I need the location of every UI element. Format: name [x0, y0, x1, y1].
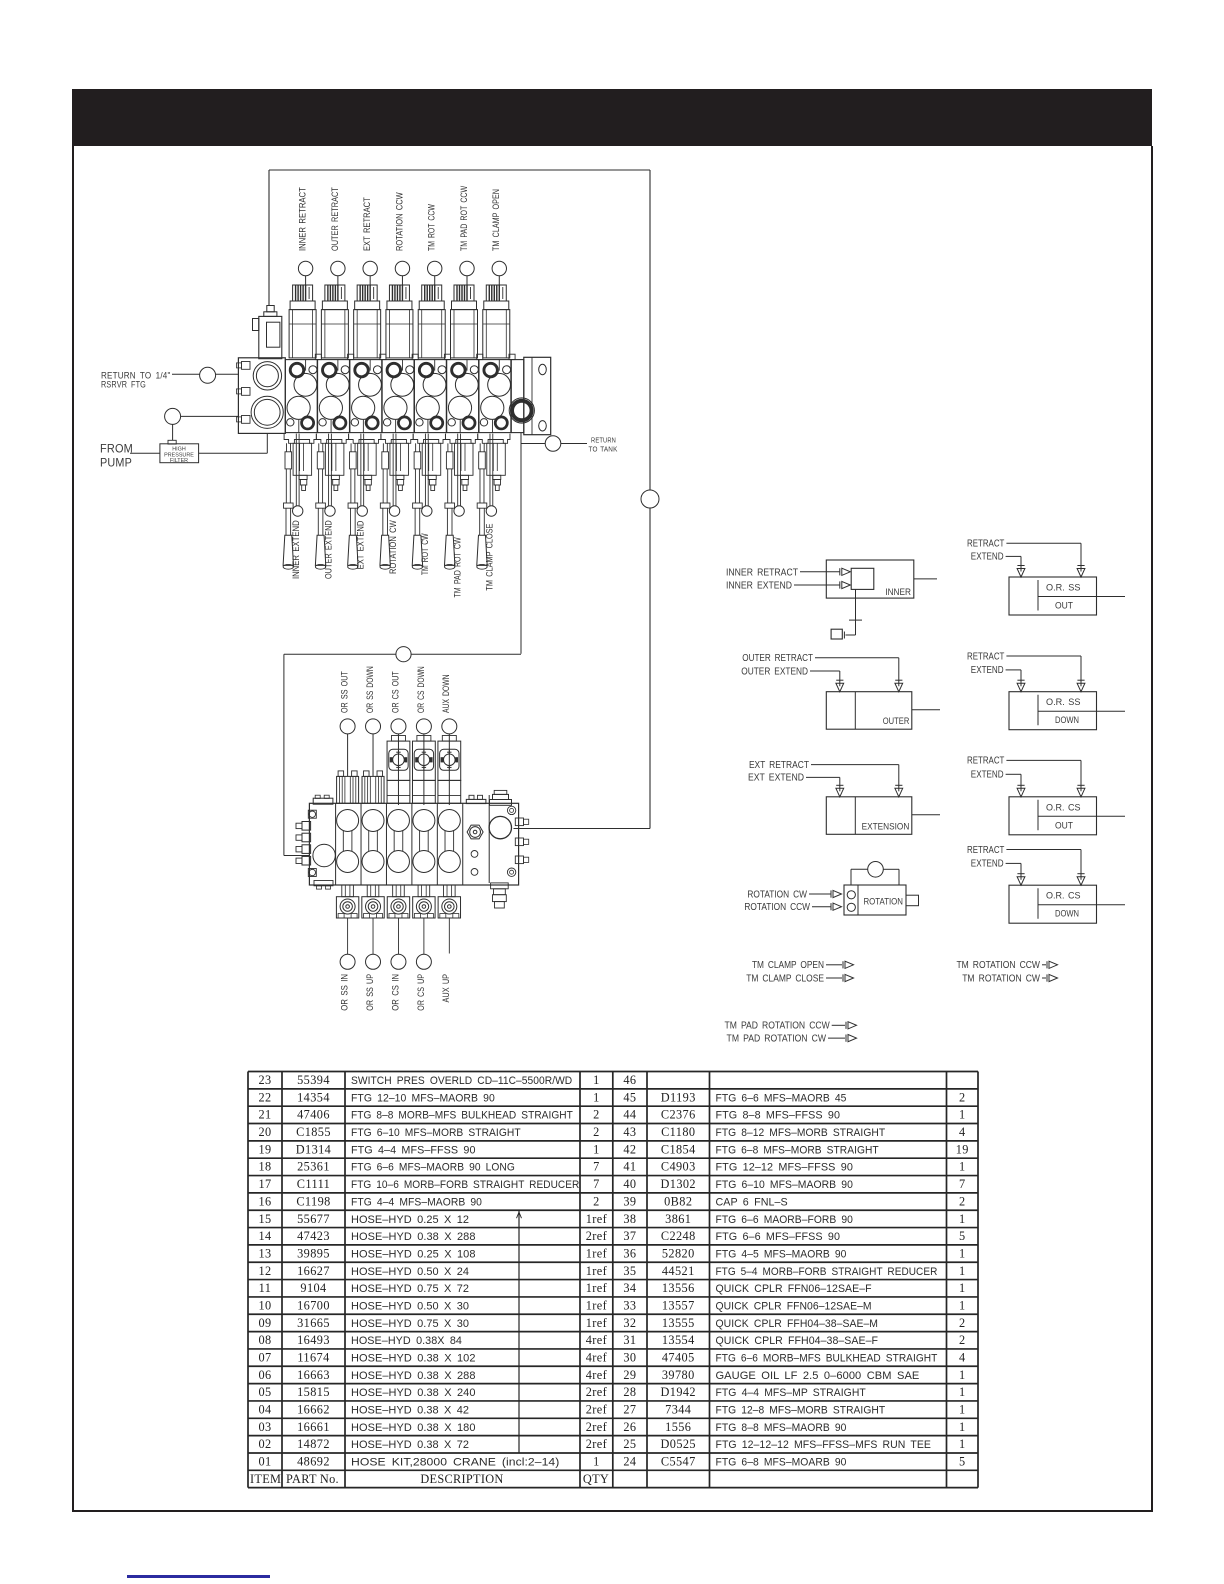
motor block ROTATION: [831, 862, 919, 916]
rod to port circle section 7: [486, 434, 496, 517]
svg-text:TM ROT CCW: TM ROT CCW: [427, 204, 437, 251]
svg-text:11: 11: [259, 1281, 272, 1295]
svg-text:47405: 47405: [662, 1350, 695, 1364]
spool & spring cap section 5: [413, 434, 445, 491]
rod to port circle section 6: [454, 434, 464, 517]
wire: [1006, 773, 1021, 775]
svg-text:OUTER RETRACT: OUTER RETRACT: [330, 187, 340, 251]
svg-text:16627: 16627: [297, 1264, 330, 1278]
svg-text:PUMP: PUMP: [100, 458, 132, 470]
svg-text:2: 2: [959, 1316, 966, 1330]
svg-text:26: 26: [623, 1420, 636, 1434]
valve section 7 ports: [480, 360, 510, 433]
svg-text:HOSE–HYD 0.38 X 240: HOSE–HYD 0.38 X 240: [351, 1387, 476, 1399]
outlet port ring: [509, 398, 534, 423]
svg-text:31: 31: [623, 1333, 636, 1347]
svg-text:36: 36: [623, 1246, 636, 1260]
svg-text:7344: 7344: [665, 1403, 691, 1417]
svg-text:1: 1: [959, 1368, 966, 1382]
svg-text:30: 30: [623, 1350, 636, 1364]
svg-text:4ref: 4ref: [586, 1333, 608, 1347]
svg-text:O.R. SS: O.R. SS: [1046, 697, 1081, 707]
node: [396, 647, 411, 662]
node: port circle OR CS OUT: [391, 719, 406, 734]
svg-text:ROTATION CW: ROTATION CW: [388, 520, 398, 574]
svg-text:FTG 12–12–12 MFS–FFSS–MFS RUN: FTG 12–12–12 MFS–FFSS–MFS RUN TEE: [716, 1439, 931, 1451]
wire: [1042, 964, 1046, 966]
svg-text:16: 16: [258, 1194, 271, 1208]
node: port circle EXT RETRACT: [363, 261, 377, 275]
wire: [199, 452, 268, 454]
svg-text:D1302: D1302: [661, 1177, 696, 1191]
svg-text:2ref: 2ref: [586, 1437, 608, 1451]
lower bank outlet cap: [489, 806, 529, 908]
wire: [498, 276, 500, 286]
svg-text:1: 1: [959, 1420, 966, 1434]
svg-text:18: 18: [258, 1160, 271, 1174]
work section AUX DOWN: [438, 810, 460, 873]
node: port circle OUTER RETRACT: [331, 261, 345, 275]
svg-text:1: 1: [959, 1298, 966, 1312]
O.R. block O.R. SS DOWN: [1009, 680, 1125, 730]
wire: [347, 734, 349, 777]
svg-text:TM PAD ROT CCW: TM PAD ROT CCW: [459, 185, 469, 251]
svg-text:44: 44: [623, 1108, 636, 1122]
node: port circle TM PAD ROT CCW: [460, 261, 474, 275]
svg-text:OR SS IN: OR SS IN: [340, 974, 350, 1011]
svg-text:INNER EXTEND: INNER EXTEND: [726, 581, 792, 592]
svg-text:4ref: 4ref: [586, 1350, 608, 1364]
svg-text:1: 1: [593, 1142, 600, 1156]
svg-text:INNER: INNER: [885, 587, 911, 597]
svg-text:4: 4: [959, 1350, 966, 1364]
spool & spring cap section 7: [478, 434, 510, 491]
svg-text:FTG 12–8 MFS–MORB STRAIGHT: FTG 12–8 MFS–MORB STRAIGHT: [716, 1405, 886, 1417]
svg-text:17: 17: [258, 1177, 271, 1191]
svg-text:13555: 13555: [662, 1316, 695, 1330]
svg-text:08: 08: [258, 1333, 271, 1347]
node: port circle OR CS DOWN: [416, 719, 431, 734]
svg-text:INNER EXTEND: INNER EXTEND: [291, 520, 301, 579]
lever handle section 4: [380, 443, 390, 569]
svg-text:FTG 6–6 MFS–MAORB 90 LONG: FTG 6–6 MFS–MAORB 90 LONG: [351, 1162, 515, 1174]
svg-text:FTG 4–4 MFS–MP STRAIGHT: FTG 4–4 MFS–MP STRAIGHT: [716, 1387, 867, 1399]
svg-text:EXT EXTEND: EXT EXTEND: [356, 521, 366, 570]
solenoid operator section 5: [418, 285, 445, 358]
svg-text:16493: 16493: [297, 1333, 330, 1347]
svg-text:HOSE–HYD 0.38 X 180: HOSE–HYD 0.38 X 180: [351, 1422, 476, 1434]
svg-text:1: 1: [959, 1385, 966, 1399]
svg-text:09: 09: [258, 1316, 271, 1330]
svg-text:16663: 16663: [297, 1368, 330, 1382]
work section OR SS DOWN: [362, 810, 384, 873]
svg-text:EXTEND: EXTEND: [971, 859, 1004, 870]
svg-text:1ref: 1ref: [586, 1281, 608, 1295]
tie rod top OR SS OUT: [337, 771, 359, 803]
svg-text:2: 2: [959, 1090, 966, 1104]
svg-text:FILTER: FILTER: [170, 458, 188, 464]
rod to port circle section 2: [325, 434, 335, 517]
svg-text:0B82: 0B82: [664, 1194, 692, 1208]
svg-text:OUT: OUT: [1055, 601, 1073, 611]
svg-text:2: 2: [959, 1194, 966, 1208]
lever handle section 1: [283, 443, 293, 569]
svg-text:47406: 47406: [297, 1108, 330, 1122]
svg-text:DOWN: DOWN: [1055, 909, 1079, 919]
svg-text:FTG 4–5 MFS–MAORB 90: FTG 4–5 MFS–MAORB 90: [716, 1248, 847, 1260]
wire: [1042, 977, 1046, 979]
svg-text:FTG 6–8 MFS–MORB STRAIGHT: FTG 6–8 MFS–MORB STRAIGHT: [716, 1144, 879, 1156]
svg-text:HOSE–HYD 0.50 X 24: HOSE–HYD 0.50 X 24: [351, 1266, 469, 1278]
svg-text:34: 34: [623, 1281, 636, 1295]
svg-text:1ref: 1ref: [586, 1316, 608, 1330]
svg-text:1: 1: [959, 1212, 966, 1226]
svg-text:EXTEND: EXTEND: [971, 770, 1004, 781]
svg-text:QUICK CPLR FFN06–12SAE–F: QUICK CPLR FFN06–12SAE–F: [716, 1283, 872, 1295]
wire: [423, 734, 425, 805]
svg-text:OR CS DOWN: OR CS DOWN: [416, 666, 426, 713]
work section OR SS OUT: [337, 810, 359, 873]
node: hose junction on right drop: [641, 490, 659, 508]
svg-text:RETURN: RETURN: [591, 436, 616, 445]
svg-text:1: 1: [593, 1455, 600, 1469]
svg-text:FTG 6–10 MFS–MAORB 90: FTG 6–10 MFS–MAORB 90: [716, 1179, 853, 1191]
svg-text:25: 25: [623, 1437, 636, 1451]
wire: [1006, 542, 1081, 544]
svg-text:25361: 25361: [297, 1160, 330, 1174]
svg-text:2ref: 2ref: [586, 1420, 608, 1434]
wire: [347, 918, 349, 954]
svg-text:O.R. CS: O.R. CS: [1046, 802, 1081, 812]
svg-text:CAP 6 FNL–S: CAP 6 FNL–S: [716, 1196, 788, 1208]
svg-text:16661: 16661: [297, 1420, 330, 1434]
svg-text:02: 02: [258, 1437, 271, 1451]
wire: pump supply loop top: [269, 169, 650, 171]
wire: [809, 893, 831, 895]
svg-text:37: 37: [623, 1229, 636, 1243]
svg-text:2ref: 2ref: [586, 1403, 608, 1417]
svg-text:HOSE–HYD 0.38 X 288: HOSE–HYD 0.38 X 288: [351, 1370, 476, 1382]
spool bottom OR CS IN: [387, 885, 409, 918]
valve section 2 ports: [319, 360, 349, 433]
relief valve on inlet: [253, 306, 282, 359]
O.R. block O.R. CS DOWN: [1009, 874, 1125, 924]
wire: [1006, 669, 1021, 671]
svg-text:5: 5: [959, 1455, 966, 1469]
svg-text:QTY: QTY: [583, 1472, 609, 1486]
svg-text:13556: 13556: [662, 1281, 695, 1295]
svg-text:39: 39: [623, 1194, 636, 1208]
svg-text:OR SS OUT: OR SS OUT: [340, 671, 350, 713]
svg-text:1: 1: [959, 1403, 966, 1417]
wire: [434, 276, 436, 286]
svg-text:27: 27: [623, 1403, 636, 1417]
svg-text:O.R. CS: O.R. CS: [1046, 891, 1081, 901]
svg-text:HOSE–HYD 0.25 X 12: HOSE–HYD 0.25 X 12: [351, 1214, 469, 1226]
wire: [806, 776, 840, 778]
svg-text:15: 15: [258, 1212, 271, 1226]
spool & spring cap section 1: [284, 434, 316, 491]
svg-text:HOSE–HYD 0.25 X 108: HOSE–HYD 0.25 X 108: [351, 1248, 476, 1260]
svg-text:44521: 44521: [662, 1264, 695, 1278]
svg-text:2ref: 2ref: [586, 1229, 608, 1243]
node: rsrvr circle: [200, 367, 216, 383]
svg-text:14: 14: [258, 1229, 271, 1243]
valve section 4 ports: [383, 360, 413, 433]
svg-text:EXTENSION: EXTENSION: [862, 821, 910, 831]
wire: [130, 452, 160, 454]
svg-text:35: 35: [623, 1264, 636, 1278]
svg-text:TO TANK: TO TANK: [589, 445, 618, 454]
O.R. block O.R. SS OUT: [1009, 566, 1125, 616]
svg-text:38: 38: [623, 1212, 636, 1226]
lever handle section 5: [412, 443, 422, 569]
svg-text:QUICK CPLR FFH04–38–SAE–F: QUICK CPLR FFH04–38–SAE–F: [716, 1335, 879, 1347]
rod to port circle section 3: [357, 434, 367, 517]
svg-text:41: 41: [623, 1160, 636, 1174]
wire: [826, 964, 842, 966]
svg-text:FROM: FROM: [100, 444, 133, 456]
svg-text:GAUGE OIL LF 2.5 0–6000 CBM SA: GAUGE OIL LF 2.5 0–6000 CBM SAE: [716, 1370, 920, 1382]
svg-text:5: 5: [959, 1229, 966, 1243]
svg-text:HOSE–HYD 0.75 X 72: HOSE–HYD 0.75 X 72: [351, 1283, 469, 1295]
svg-text:15815: 15815: [297, 1385, 330, 1399]
work section OR CS DOWN: [413, 810, 435, 873]
wire: [337, 276, 339, 286]
svg-text:20: 20: [258, 1125, 271, 1139]
svg-text:43: 43: [623, 1125, 636, 1139]
wire: [423, 918, 425, 954]
wire: [912, 709, 940, 711]
svg-text:D0525: D0525: [661, 1437, 696, 1451]
svg-text:07: 07: [258, 1350, 271, 1364]
svg-text:TM ROT CW: TM ROT CW: [420, 533, 430, 575]
svg-text:29: 29: [623, 1368, 636, 1382]
node: port circle ROTATION CCW: [395, 261, 409, 275]
svg-text:52820: 52820: [662, 1246, 695, 1260]
svg-text:TM PAD ROTATION CW: TM PAD ROTATION CW: [727, 1033, 827, 1044]
svg-text:OUTER: OUTER: [883, 716, 910, 726]
wire: lower bank output: [514, 828, 651, 830]
svg-text:05: 05: [258, 1385, 271, 1399]
lower bank inlet cap: [296, 810, 335, 889]
svg-text:C2376: C2376: [661, 1108, 696, 1122]
svg-text:OR SS UP: OR SS UP: [365, 974, 375, 1011]
svg-text:1: 1: [959, 1246, 966, 1260]
svg-text:22: 22: [258, 1090, 271, 1104]
svg-text:C1111: C1111: [297, 1177, 330, 1191]
svg-text:2: 2: [593, 1125, 600, 1139]
svg-text:48692: 48692: [297, 1455, 330, 1469]
svg-text:D1314: D1314: [296, 1142, 331, 1156]
rod to port circle section 4: [389, 434, 399, 517]
solenoid operator section 2: [321, 285, 348, 358]
wire: [828, 1037, 845, 1039]
wire: INNER drain w/ plug: [831, 589, 862, 639]
work section OR CS OUT: [387, 810, 409, 873]
svg-text:4: 4: [959, 1125, 966, 1139]
svg-text:ROTATION CCW: ROTATION CCW: [744, 902, 810, 913]
svg-text:DESCRIPTION: DESCRIPTION: [420, 1472, 503, 1486]
wire: [372, 918, 374, 954]
node: [545, 436, 561, 452]
wire: [466, 276, 468, 286]
wire: [305, 276, 307, 286]
lever handle section 2: [315, 443, 325, 569]
solenoid operator section 7: [483, 285, 510, 358]
solenoid operator section 3: [354, 285, 381, 358]
wire: [800, 571, 840, 573]
svg-text:EXT RETRACT: EXT RETRACT: [749, 760, 809, 771]
wire: [172, 424, 174, 440]
svg-text:HOSE–HYD 0.38 X 288: HOSE–HYD 0.38 X 288: [351, 1231, 476, 1243]
node: port circle TM CLAMP OPEN: [492, 261, 506, 275]
svg-text:RETRACT: RETRACT: [967, 539, 1004, 550]
svg-text:40: 40: [623, 1177, 636, 1191]
svg-text:C4903: C4903: [661, 1160, 696, 1174]
svg-text:13: 13: [258, 1246, 271, 1260]
svg-text:FTG 12–10 MFS–MAORB 90: FTG 12–10 MFS–MAORB 90: [351, 1092, 495, 1104]
svg-text:HOSE–HYD 0.38 X 102: HOSE–HYD 0.38 X 102: [351, 1352, 476, 1364]
wire: left drop to relief inlet: [268, 170, 270, 306]
wire: [401, 276, 403, 286]
svg-text:OR CS IN: OR CS IN: [390, 974, 400, 1011]
svg-text:HOSE KIT,28000 CRANE (incl:2–1: HOSE KIT,28000 CRANE (incl:2–14): [351, 1457, 559, 1469]
svg-text:TM CLAMP OPEN: TM CLAMP OPEN: [752, 960, 824, 971]
svg-text:1: 1: [959, 1437, 966, 1451]
svg-text:TM ROTATION CW: TM ROTATION CW: [962, 973, 1040, 984]
wire: [1006, 555, 1021, 557]
svg-text:16700: 16700: [297, 1298, 330, 1312]
wire: [1006, 759, 1081, 761]
valve section 5 ports: [416, 360, 446, 433]
svg-text:RSRVR FTG: RSRVR FTG: [101, 380, 146, 390]
svg-text:OUTER EXTEND: OUTER EXTEND: [741, 666, 808, 677]
O.R. block O.R. CS OUT: [1009, 785, 1125, 835]
parts table: [248, 1072, 978, 1488]
svg-text:FTG 8–12 MFS–MORB STRAIGHT: FTG 8–12 MFS–MORB STRAIGHT: [716, 1127, 886, 1139]
svg-text:55677: 55677: [297, 1212, 330, 1226]
svg-text:FTG 4–4 MFS–MAORB 90: FTG 4–4 MFS–MAORB 90: [351, 1196, 482, 1208]
svg-text:OR CS UP: OR CS UP: [416, 974, 426, 1011]
svg-text:HOSE–HYD 0.38 X 72: HOSE–HYD 0.38 X 72: [351, 1439, 469, 1451]
spool bottom AUX UP: [438, 885, 460, 918]
svg-text:45: 45: [623, 1090, 636, 1104]
svg-text:7: 7: [593, 1177, 600, 1191]
svg-text:1ref: 1ref: [586, 1298, 608, 1312]
node: port circle OR SS OUT: [340, 719, 355, 734]
svg-text:2: 2: [593, 1108, 600, 1122]
svg-text:O.R. SS: O.R. SS: [1046, 583, 1081, 593]
svg-text:2: 2: [959, 1333, 966, 1347]
svg-text:32: 32: [623, 1316, 636, 1330]
inlet end cap: [237, 358, 286, 434]
solenoid valve top OR CS DOWN: [412, 736, 435, 804]
valve section 3 ports: [351, 360, 381, 433]
node: port circle INNER RETRACT: [298, 261, 312, 275]
svg-text:FTG 6–10 MFS–MORB STRAIGHT: FTG 6–10 MFS–MORB STRAIGHT: [351, 1127, 521, 1139]
svg-text:FTG 10–6 MORB–FORB STRAIGHT RE: FTG 10–6 MORB–FORB STRAIGHT REDUCER: [351, 1179, 579, 1191]
svg-text:TM ROTATION CCW: TM ROTATION CCW: [956, 960, 1040, 971]
svg-text:7: 7: [593, 1160, 600, 1174]
svg-text:39780: 39780: [662, 1368, 695, 1382]
svg-text:C1198: C1198: [296, 1194, 330, 1208]
svg-text:42: 42: [623, 1142, 636, 1156]
svg-text:3861: 3861: [665, 1212, 691, 1226]
svg-text:EXTEND: EXTEND: [971, 552, 1004, 563]
svg-text:TM PAD ROTATION CCW: TM PAD ROTATION CCW: [725, 1021, 831, 1032]
wire: [448, 918, 450, 954]
svg-text:ROTATION: ROTATION: [864, 897, 904, 907]
svg-text:16662: 16662: [297, 1403, 330, 1417]
wire: [810, 670, 840, 672]
svg-text:47423: 47423: [297, 1229, 330, 1243]
svg-text:1: 1: [959, 1160, 966, 1174]
wire: return to tank: [520, 433, 522, 654]
svg-text:23: 23: [258, 1073, 271, 1087]
svg-text:1ref: 1ref: [586, 1246, 608, 1260]
rod to port circle section 5: [422, 434, 432, 517]
cylinder block INNER: [826, 560, 914, 598]
valve section 6 ports: [448, 360, 478, 433]
svg-text:TM PAD ROT CW: TM PAD ROT CW: [452, 537, 462, 598]
solenoid operator section 1: [289, 285, 316, 358]
cylinder block OUTER: [826, 680, 912, 729]
node: port circle OR CS IN: [391, 954, 406, 969]
solenoid operator section 4: [386, 285, 413, 358]
wire: [369, 276, 371, 286]
svg-text:10: 10: [258, 1298, 271, 1312]
spool & spring cap section 3: [349, 434, 381, 491]
solenoid valve top AUX DOWN: [438, 736, 461, 804]
wire: [181, 415, 239, 417]
outlet end plate: [524, 357, 551, 434]
svg-text:FTG 5–4 MORB–FORB STRAIGHT RED: FTG 5–4 MORB–FORB STRAIGHT REDUCER: [716, 1266, 938, 1278]
wire: [448, 734, 450, 805]
svg-text:PART No.: PART No.: [286, 1472, 339, 1486]
svg-text:EXT RETRACT: EXT RETRACT: [362, 197, 372, 251]
solenoid operator section 6: [451, 285, 478, 358]
svg-text:19: 19: [258, 1142, 271, 1156]
outlet section: [511, 360, 524, 433]
wire: INNER output: [914, 578, 937, 580]
svg-text:13557: 13557: [662, 1298, 695, 1312]
lower bank blank section w/ gauge port: [467, 825, 483, 875]
svg-text:FTG 12–12 MFS–FFSS 90: FTG 12–12 MFS–FFSS 90: [716, 1162, 853, 1174]
node: pump circle: [165, 408, 181, 424]
solenoid valve top OR CS OUT: [387, 736, 410, 804]
svg-text:12: 12: [258, 1264, 271, 1278]
svg-text:OUTER EXTEND: OUTER EXTEND: [323, 520, 333, 579]
wire: [815, 657, 899, 659]
svg-text:ROTATION CCW: ROTATION CCW: [394, 192, 404, 251]
svg-text:OUTER RETRACT: OUTER RETRACT: [742, 653, 813, 664]
svg-text:C1180: C1180: [661, 1125, 695, 1139]
svg-text:SWITCH PRES OVERLD CD–11C–5500: SWITCH PRES OVERLD CD–11C–5500R/WD: [351, 1075, 572, 1087]
svg-text:HOSE–HYD 0.50 X 30: HOSE–HYD 0.50 X 30: [351, 1300, 469, 1312]
node: port circle OR SS IN: [340, 954, 355, 969]
svg-text:14354: 14354: [297, 1090, 330, 1104]
wire: [1006, 862, 1021, 864]
svg-text:OR SS DOWN: OR SS DOWN: [365, 666, 375, 713]
wire: [826, 977, 842, 979]
manifold: top valve bank body: [285, 354, 515, 432]
node: port circle OR SS DOWN: [366, 719, 381, 734]
svg-text:FTG 8–8 MFS–FFSS 90: FTG 8–8 MFS–FFSS 90: [716, 1110, 841, 1122]
node: port circle OR CS UP: [416, 954, 431, 969]
svg-text:D1193: D1193: [661, 1090, 696, 1104]
svg-text:AUX UP: AUX UP: [441, 974, 451, 1003]
